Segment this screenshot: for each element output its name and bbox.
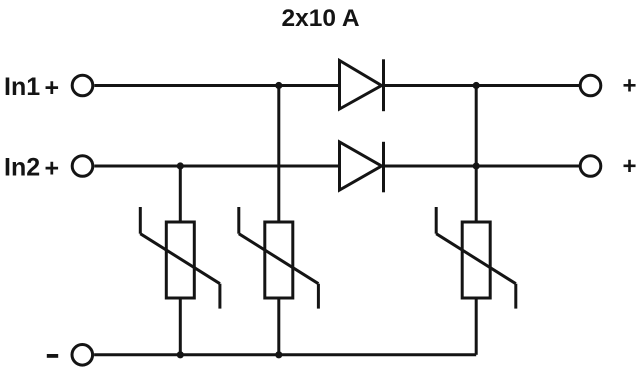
wire In1 horizontal — [94, 84, 339, 87]
label minus — [47, 354, 58, 358]
svg-text:In1: In1 — [4, 73, 40, 101]
node junction rail/RV2 — [275, 351, 282, 358]
svg-text:+: + — [45, 155, 60, 183]
wire D1 cathode to node N1 — [384, 84, 581, 87]
wire D2 cathode to node N2 — [384, 165, 581, 168]
terminal minus — [72, 345, 93, 366]
varistor RV1 — [140, 207, 220, 309]
terminal output plus 2 — [580, 156, 601, 177]
node junction In2/RV1 — [177, 162, 184, 169]
node junction In1/RV2 — [275, 82, 282, 89]
wire minus rail — [94, 353, 476, 356]
wire node N1 to node N2 to varistor RV3 — [475, 86, 478, 222]
node junction rail/RV1 — [177, 351, 184, 358]
terminal In2 — [72, 156, 93, 177]
diode D2 — [340, 142, 384, 193]
svg-text:2x10 A: 2x10 A — [282, 5, 360, 32]
varistor RV3 — [436, 207, 516, 309]
diode D1 — [340, 59, 384, 111]
wire In2 horizontal — [94, 165, 339, 168]
wire varistor RV3 to minus rail — [475, 299, 478, 355]
node junction N1 output 1 — [473, 82, 480, 89]
wire In2 node to varistor RV1 — [179, 166, 182, 221]
svg-text:+: + — [623, 153, 637, 180]
node junction N2 output 2 — [473, 162, 480, 169]
wire In1 node down to varistor RV2 (crosses In2 wire) — [277, 86, 280, 222]
svg-text:In2: In2 — [4, 154, 40, 182]
wire varistor RV2 to minus rail — [277, 299, 280, 355]
varistor RV2 — [239, 207, 319, 309]
terminal In1 — [72, 75, 93, 96]
svg-text:+: + — [623, 73, 637, 100]
wire varistor RV1 to minus rail — [179, 299, 182, 355]
terminal output plus 1 — [580, 75, 601, 96]
svg-text:+: + — [45, 74, 60, 102]
